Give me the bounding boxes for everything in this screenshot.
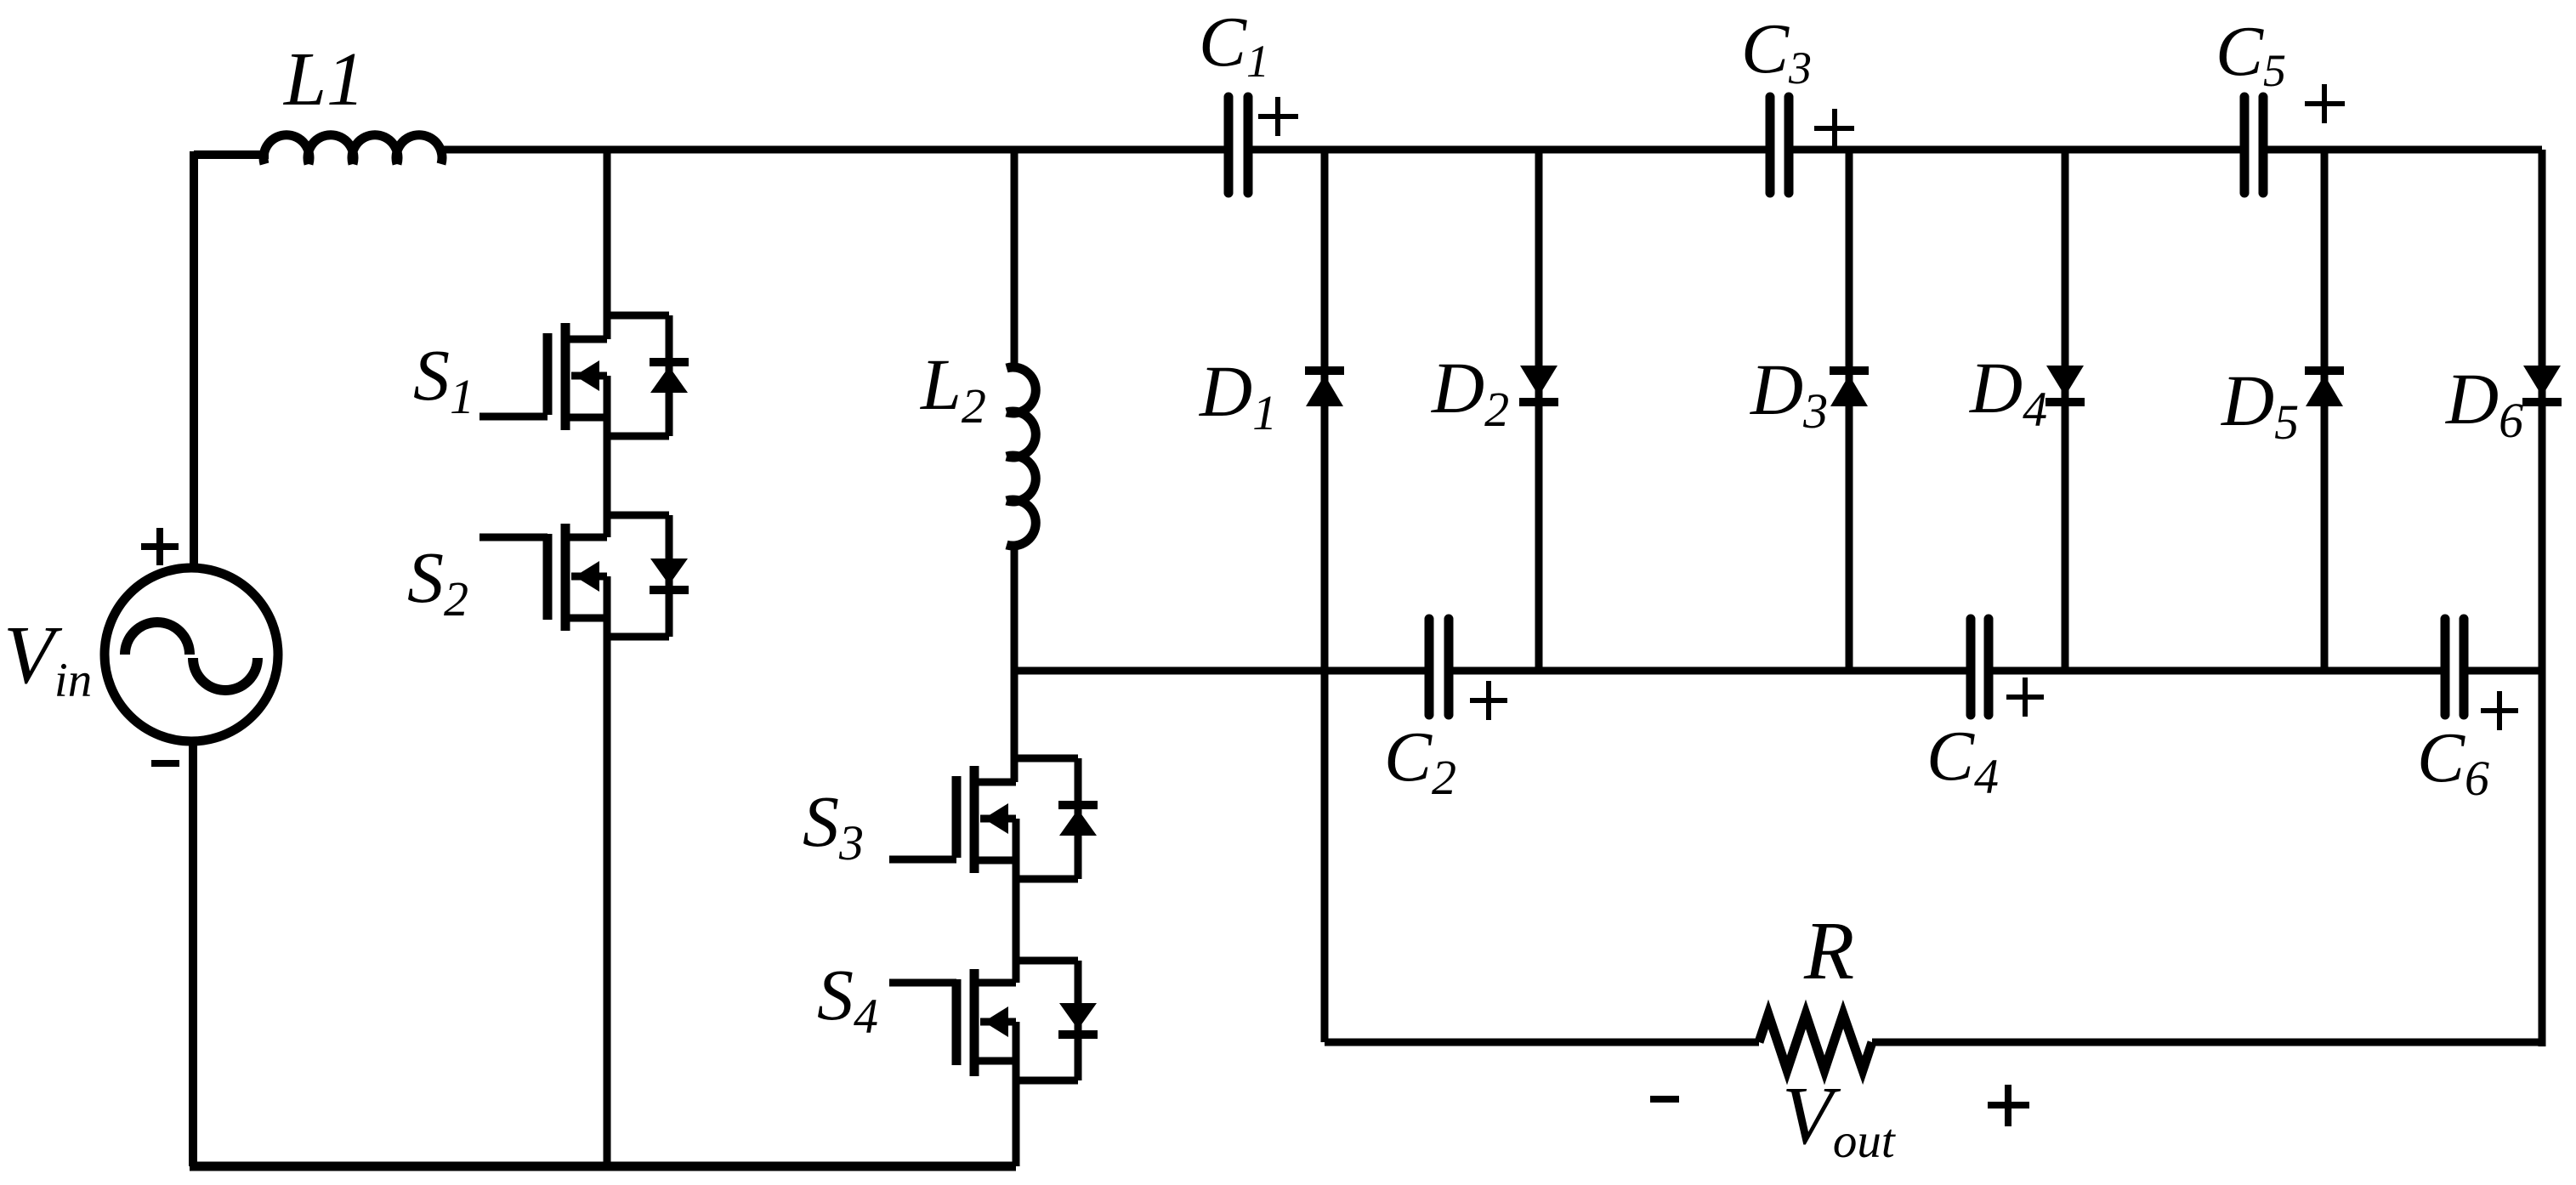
transistor S3 [956, 766, 1016, 879]
wire L2 leg top (rail to inductor) [1011, 150, 1018, 371]
label + of C2 [1470, 681, 1507, 720]
wire S1 source to S2 drain [604, 436, 611, 537]
capacitor C5 [2244, 97, 2263, 193]
wire output right segment [1872, 1039, 2542, 1046]
wire L2 to S3 drain [1011, 541, 1018, 782]
body diode of S3 [1016, 758, 1098, 879]
svg-text:L1: L1 [282, 37, 365, 122]
label + of C6 [2481, 691, 2518, 730]
capacitor C6 [2445, 619, 2464, 715]
wire bottom rail [190, 1162, 1016, 1171]
label + of C5 [2305, 84, 2345, 123]
body diode of S4 [1016, 961, 1098, 1080]
wire output left segment [1325, 1039, 1759, 1046]
diode D6 [2522, 150, 2562, 1046]
diode D4 [2045, 150, 2085, 671]
label + of Vin [141, 528, 179, 565]
wire top rail [194, 150, 2542, 155]
transistor S4 [956, 969, 1016, 1080]
wire left vertical (Vin top lead) [190, 151, 198, 568]
wire S3 source to S4 drain [1013, 879, 1020, 983]
wire S2 source to bottom rail [604, 637, 611, 1166]
capacitor C4 [1971, 619, 1989, 715]
diode D1 [1305, 150, 1344, 1042]
label + of Vout [1988, 1085, 2029, 1126]
source Vin [105, 568, 278, 741]
wire S3 gate lead [889, 856, 956, 864]
label + of C3 [1814, 109, 1854, 148]
label + of C1 [1258, 97, 1298, 136]
label + of C4 [2006, 678, 2044, 717]
capacitor C3 [1770, 97, 1789, 193]
wire S4 source to bottom rail [1013, 1080, 1020, 1166]
transistor S2 [548, 524, 607, 637]
inductor L2 [1007, 367, 1036, 546]
inductor L1 [264, 135, 442, 164]
transistor S1 [548, 323, 607, 436]
svg-text:R: R [1803, 905, 1854, 996]
label - of Vin [151, 760, 179, 767]
resistor R [1759, 1014, 1872, 1070]
wire middle rail [1014, 667, 2542, 675]
wire S1 leg top (rail to S1 drain) [604, 150, 611, 339]
capacitor C2 [1429, 619, 1449, 715]
wire left vertical (Vin bottom lead) [189, 743, 197, 1166]
capacitor C1 [1228, 97, 1248, 193]
body diode of S2 [607, 515, 689, 637]
wire S2 gate lead [479, 534, 548, 541]
diode D3 [1830, 150, 1869, 671]
diode D2 [1519, 150, 1558, 671]
body diode of S1 [607, 315, 689, 436]
wire S4 gate lead [889, 979, 956, 987]
diode D5 [2305, 150, 2344, 671]
label - of Vout [1650, 1096, 1679, 1103]
wire S1 gate lead [479, 413, 548, 421]
